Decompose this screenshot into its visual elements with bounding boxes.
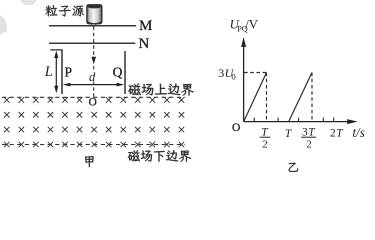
svg-text:2: 2 (330, 128, 336, 140)
svg-text:3: 3 (218, 66, 224, 80)
svg-text:O: O (232, 122, 240, 134)
label d (89, 70, 96, 84)
label: lower boundary 磁场下边界 (128, 150, 191, 162)
label N (139, 36, 150, 52)
svg-text:Q: Q (113, 64, 123, 79)
particle source cylinder (87, 5, 102, 27)
dimension arrow L (54, 51, 58, 94)
label: upper boundary 磁场上边界 (128, 83, 194, 95)
y axis label U_PQ/V (230, 17, 259, 33)
plate Q (right vertical) (124, 51, 126, 94)
y value label 3U0 (218, 66, 236, 82)
svg-text:2: 2 (262, 139, 268, 151)
label 3T/2 (301, 126, 316, 150)
svg-text:0: 0 (231, 71, 236, 81)
svg-text:T: T (308, 126, 316, 138)
plate N line (49, 42, 135, 44)
svg-text:T: T (285, 128, 293, 140)
label M (139, 18, 152, 34)
dashed drop at 3T/2 (311, 73, 313, 122)
dimension arrow d (63, 83, 125, 87)
svg-text:P: P (65, 64, 73, 79)
plate M line (49, 25, 136, 27)
svg-text:/V: /V (245, 17, 259, 31)
origin label O (232, 122, 240, 134)
label: figure 乙 (289, 163, 298, 172)
svg-text:2: 2 (306, 139, 312, 151)
x axis (244, 119, 358, 124)
label: figure 甲 (85, 156, 94, 167)
label T (285, 128, 293, 140)
label T/2 (260, 126, 271, 150)
dashed level 3U0 (244, 72, 267, 74)
label P (65, 64, 73, 79)
svg-text:O: O (89, 97, 97, 109)
svg-text:3: 3 (302, 126, 308, 138)
svg-text:d: d (89, 70, 96, 84)
label L (44, 64, 53, 80)
label: particle source 粒子源 (45, 5, 83, 16)
label Q (113, 64, 123, 79)
axis ticks (254, 118, 333, 122)
ramp 1 (244, 73, 267, 122)
svg-text:M: M (139, 18, 152, 34)
svg-text:T: T (261, 126, 269, 138)
scan artifact corner blobs (0, 0, 37, 35)
svg-text:L: L (44, 64, 53, 80)
dashed drop at T/2 (266, 73, 268, 122)
ramp 2 (289, 73, 312, 122)
label 2T (330, 128, 344, 140)
plate P (left vertical) (61, 50, 63, 94)
center dashed beam line with arrow (91, 27, 96, 97)
svg-text:T: T (336, 128, 344, 140)
upper field boundary dashed line (2, 96, 185, 98)
axis unit t/s (352, 125, 364, 140)
svg-text:t/s: t/s (352, 125, 364, 140)
node O (origin on boundary) (89, 97, 97, 109)
lower field boundary dashed line (2, 144, 185, 146)
magnetic field region x symbols (4, 97, 184, 147)
top reference cap for L (50, 49, 62, 51)
svg-text:N: N (139, 36, 150, 52)
y axis (241, 37, 246, 122)
